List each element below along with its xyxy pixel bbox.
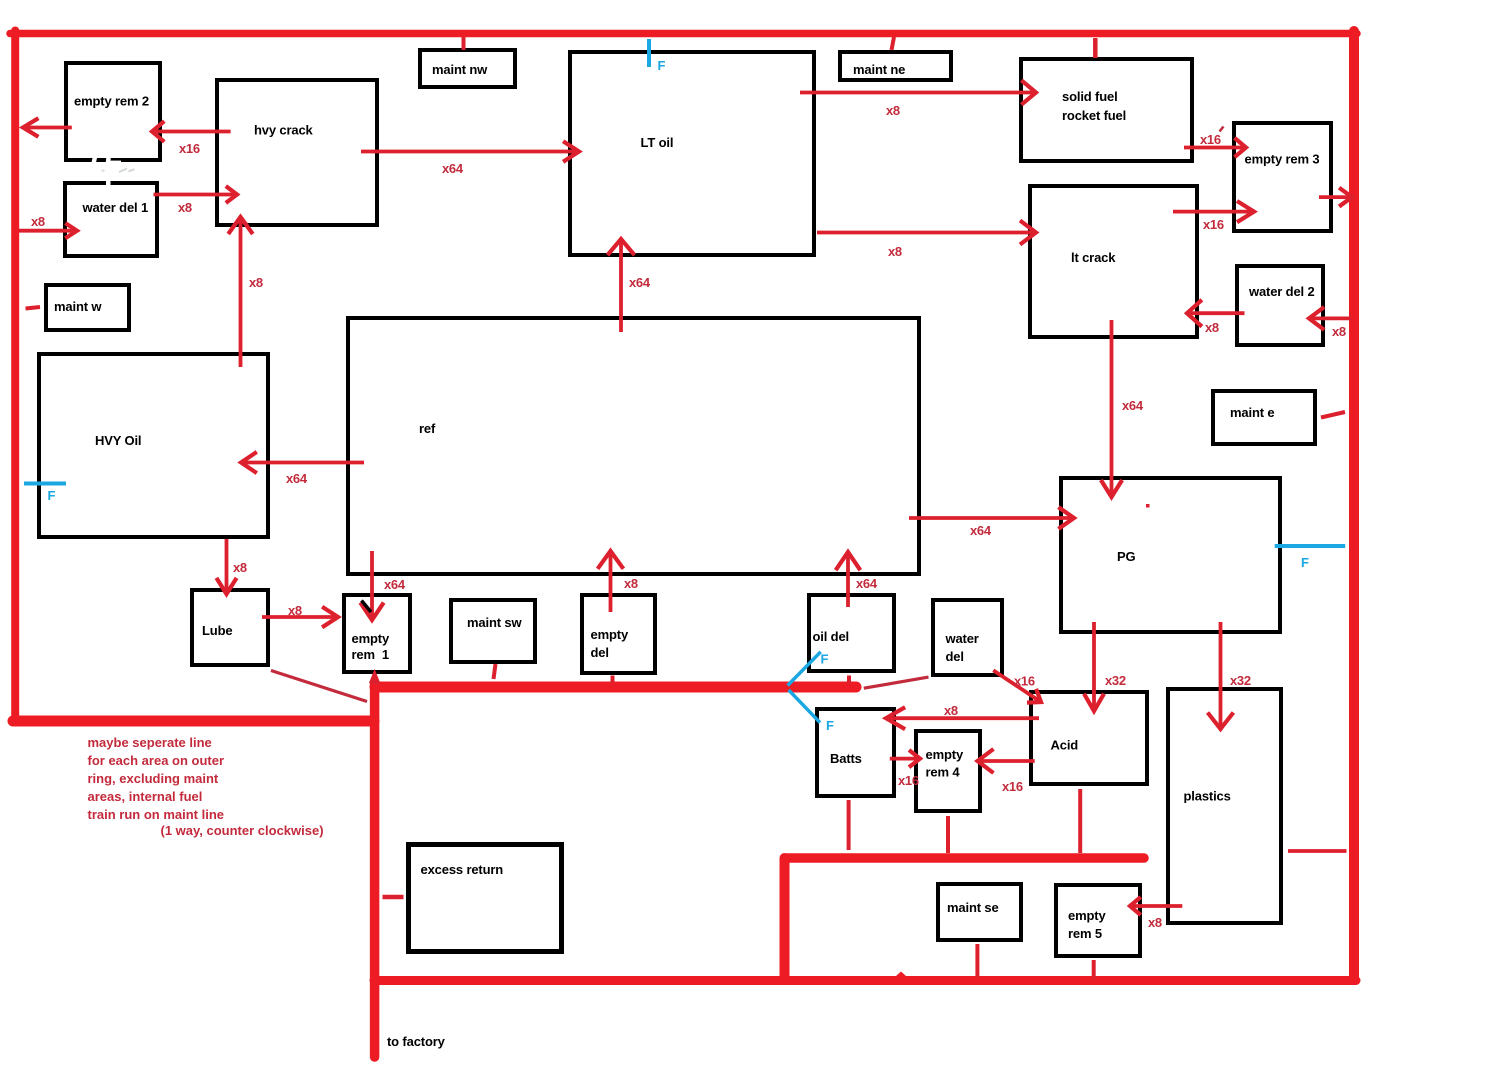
arrow ref down to empty rem 1 (360, 551, 383, 620)
station solid fuel rocket fuel (1021, 59, 1192, 161)
station plastics (1168, 689, 1281, 923)
svg-text:x64: x64 (856, 576, 878, 591)
arrow ref up to LT oil (608, 239, 635, 332)
maint ring top border (10, 30, 1357, 38)
arrow plastics to empty rem 5 (1130, 897, 1182, 915)
station empty rem 3 (1234, 123, 1331, 231)
fuel mark HVY Oil (24, 482, 66, 486)
svg-text:plastics: plastics (1184, 789, 1231, 804)
svg-text:oil del: oil del (813, 629, 850, 644)
station empty rem 1 (344, 595, 410, 672)
diagonal line Lube to maint junction (271, 671, 367, 702)
station hvy crack (217, 80, 377, 225)
station empty rem 4 (916, 731, 980, 811)
svg-text:x64: x64 (629, 275, 651, 290)
svg-text:Acid: Acid (1051, 738, 1079, 753)
station maint e (1213, 391, 1315, 444)
station PG (1061, 478, 1280, 632)
svg-text:F: F (821, 652, 829, 667)
station oil del (809, 595, 894, 671)
arrow hvy crack to empty rem 2 (152, 121, 231, 142)
svg-text:PG: PG (1117, 549, 1136, 564)
svg-text:Batts: Batts (830, 751, 862, 766)
tick empty rem 5 to maint line (1092, 960, 1096, 980)
arrow hvy crack to LT oil (361, 141, 579, 162)
svg-text:maint ne: maint ne (853, 62, 905, 77)
arrow LT oil to solid fuel (800, 80, 1036, 104)
svg-text:maint sw: maint sw (467, 615, 522, 630)
maint ring right border (1349, 31, 1359, 980)
arrow water del 2 to lt crack (1187, 300, 1245, 327)
arrow ref to PG (909, 507, 1074, 529)
svg-text:HVY Oil: HVY Oil (95, 433, 141, 448)
arrow Lube to empty rem 1 (262, 607, 338, 628)
svg-text:x64: x64 (286, 471, 308, 486)
svg-text:hvy crack: hvy crack (254, 123, 314, 138)
arrow PG down to plastics (1208, 622, 1234, 729)
svg-text:x8: x8 (888, 244, 902, 259)
svg-text:x8: x8 (233, 560, 247, 575)
svg-text:maint e: maint e (1230, 405, 1274, 420)
inner maint line vertical right (780, 858, 790, 979)
station water del (933, 600, 1002, 675)
tick maint w to ring (26, 307, 41, 309)
svg-text:emptyrem 1: emptyrem 1 (352, 631, 390, 662)
svg-text:x16: x16 (179, 141, 200, 156)
tick empty rem 4 to maint line (946, 816, 950, 853)
arrow lt crack to empty rem 3 (1173, 201, 1254, 222)
station maint ne (840, 52, 951, 80)
tick solid fuel to ring (1093, 38, 1098, 58)
station water del 1 (65, 183, 157, 256)
svg-text:F: F (1301, 555, 1309, 570)
arrow oil del up to ref (836, 552, 861, 607)
arrow outer ring to water del 1 (19, 223, 77, 238)
arrow empty rem 2 to outer ring x-left (23, 118, 72, 137)
arrow lt crack down to PG (1101, 320, 1122, 497)
station empty rem 2 (66, 63, 160, 160)
svg-text:to factory: to factory (387, 1034, 446, 1049)
diagonal line maint junction to water del (864, 677, 929, 688)
station maint se (938, 884, 1021, 940)
svg-text:x64: x64 (1122, 398, 1144, 413)
station maint nw (420, 50, 515, 87)
fuel mark LT oil (647, 39, 651, 67)
arrow HVY Oil down to Lube (216, 539, 236, 594)
svg-text:x32: x32 (1230, 673, 1251, 688)
maint ring bottom border (374, 976, 1356, 985)
svg-text:x64: x64 (442, 161, 464, 176)
svg-text:x8: x8 (886, 103, 900, 118)
arrow HVY Oil up to hvy crack (228, 217, 253, 367)
svg-text:x8: x8 (1205, 320, 1219, 335)
svg-text:ref: ref (419, 421, 436, 436)
fuel mark PG (1275, 544, 1346, 548)
svg-text:maint se: maint se (947, 900, 999, 915)
stray tick above x16 label (1220, 127, 1224, 132)
svg-text:F: F (658, 58, 666, 73)
inner maint line horizontal lower (787, 853, 1145, 863)
station maint w (46, 285, 129, 330)
svg-text:empty rem 2: empty rem 2 (74, 94, 149, 109)
station empty rem 5 (1056, 885, 1140, 956)
arrowhead up into empty rem 1 from maint line (373, 675, 377, 684)
svg-text:x8: x8 (178, 200, 192, 215)
svg-text:x16: x16 (1203, 217, 1224, 232)
maint ring bottom-left segment (13, 716, 374, 727)
inner maint line horizontal upper (375, 682, 856, 693)
station maint sw (451, 600, 535, 662)
station ref (348, 318, 919, 574)
arrow LT oil to lt crack (817, 221, 1036, 245)
tick oil del to maint line (847, 676, 851, 685)
svg-text:x8: x8 (249, 275, 263, 290)
arrow solid fuel to empty rem 3 (1184, 138, 1246, 157)
svg-text:excess return: excess return (421, 862, 504, 877)
arrow Acid to Batts (886, 707, 1039, 729)
station Lube (192, 590, 268, 665)
arrow empty rem 3 to outer ring (1319, 188, 1352, 207)
station HVY Oil (39, 354, 268, 537)
station water del 2 (1237, 266, 1323, 345)
svg-text:x8: x8 (624, 576, 638, 591)
svg-text:lt crack: lt crack (1071, 250, 1116, 265)
tick maint se to maint line (975, 944, 979, 977)
tick maint ne to ring (892, 37, 895, 50)
svg-text:x8: x8 (31, 214, 45, 229)
arrow Acid to empty rem 4 (978, 749, 1035, 773)
station Acid (1031, 692, 1147, 784)
svg-text:x8: x8 (288, 603, 302, 618)
svg-text:x16: x16 (1200, 132, 1221, 147)
red speck in PG box (1146, 504, 1150, 508)
svg-text:water del 2: water del 2 (1248, 284, 1315, 299)
svg-text:x16: x16 (1002, 779, 1023, 794)
station lt crack (1030, 186, 1197, 337)
svg-text:empty rem 3: empty rem 3 (1245, 152, 1320, 167)
station empty del (582, 595, 655, 673)
svg-text:x16: x16 (1014, 674, 1035, 689)
tick empty del to maint line (611, 676, 615, 684)
svg-text:water del 1: water del 1 (82, 200, 149, 215)
svg-text:x16: x16 (898, 773, 919, 788)
svg-text:F: F (826, 718, 834, 733)
eraser scribble over empty rem 2 corner (91, 156, 135, 186)
line plastics to outer ring (1288, 849, 1347, 853)
arrow water del diagonal to Acid (993, 670, 1041, 702)
tick Batts to maint line (847, 800, 851, 850)
arrow empty del up to ref (598, 551, 624, 612)
arrow PG down to Acid (1084, 622, 1104, 711)
arrow ref to HVY Oil (241, 452, 364, 473)
maint ring left border (11, 31, 19, 722)
station Batts (817, 709, 894, 796)
svg-text:maint nw: maint nw (432, 62, 488, 77)
inner maint line to factory vertical (370, 683, 380, 1057)
black streak in empty rem 1 arrowhead (362, 601, 372, 613)
svg-text:F: F (48, 488, 56, 503)
svg-text:x8: x8 (1332, 324, 1346, 339)
tick excess return to maint line (383, 895, 404, 900)
svg-text:x32: x32 (1105, 673, 1126, 688)
arrow outer ring to water del 2 (1309, 307, 1352, 330)
svg-text:maint w: maint w (54, 299, 102, 314)
tick Acid to maint line (1078, 789, 1082, 853)
svg-text:x8: x8 (1148, 915, 1162, 930)
svg-text:Lube: Lube (202, 623, 232, 638)
svg-text:LT oil: LT oil (641, 135, 674, 150)
tick maint sw to maint line (494, 664, 496, 679)
tick maint e to ring (1321, 412, 1345, 418)
arrow water del 1 to hvy crack (154, 186, 238, 203)
tick maint nw to ring (462, 37, 466, 51)
svg-text:x64: x64 (384, 577, 406, 592)
fuel mark oil del diagonal (788, 652, 821, 686)
svg-text:x8: x8 (944, 703, 958, 718)
fuel mark Batts diagonal (789, 690, 820, 723)
station LT oil (570, 52, 814, 255)
svg-text:x64: x64 (970, 523, 992, 538)
station excess return (409, 845, 562, 952)
arrow Batts to empty rem 4 (890, 750, 920, 767)
red bump on bottom border (896, 972, 906, 977)
